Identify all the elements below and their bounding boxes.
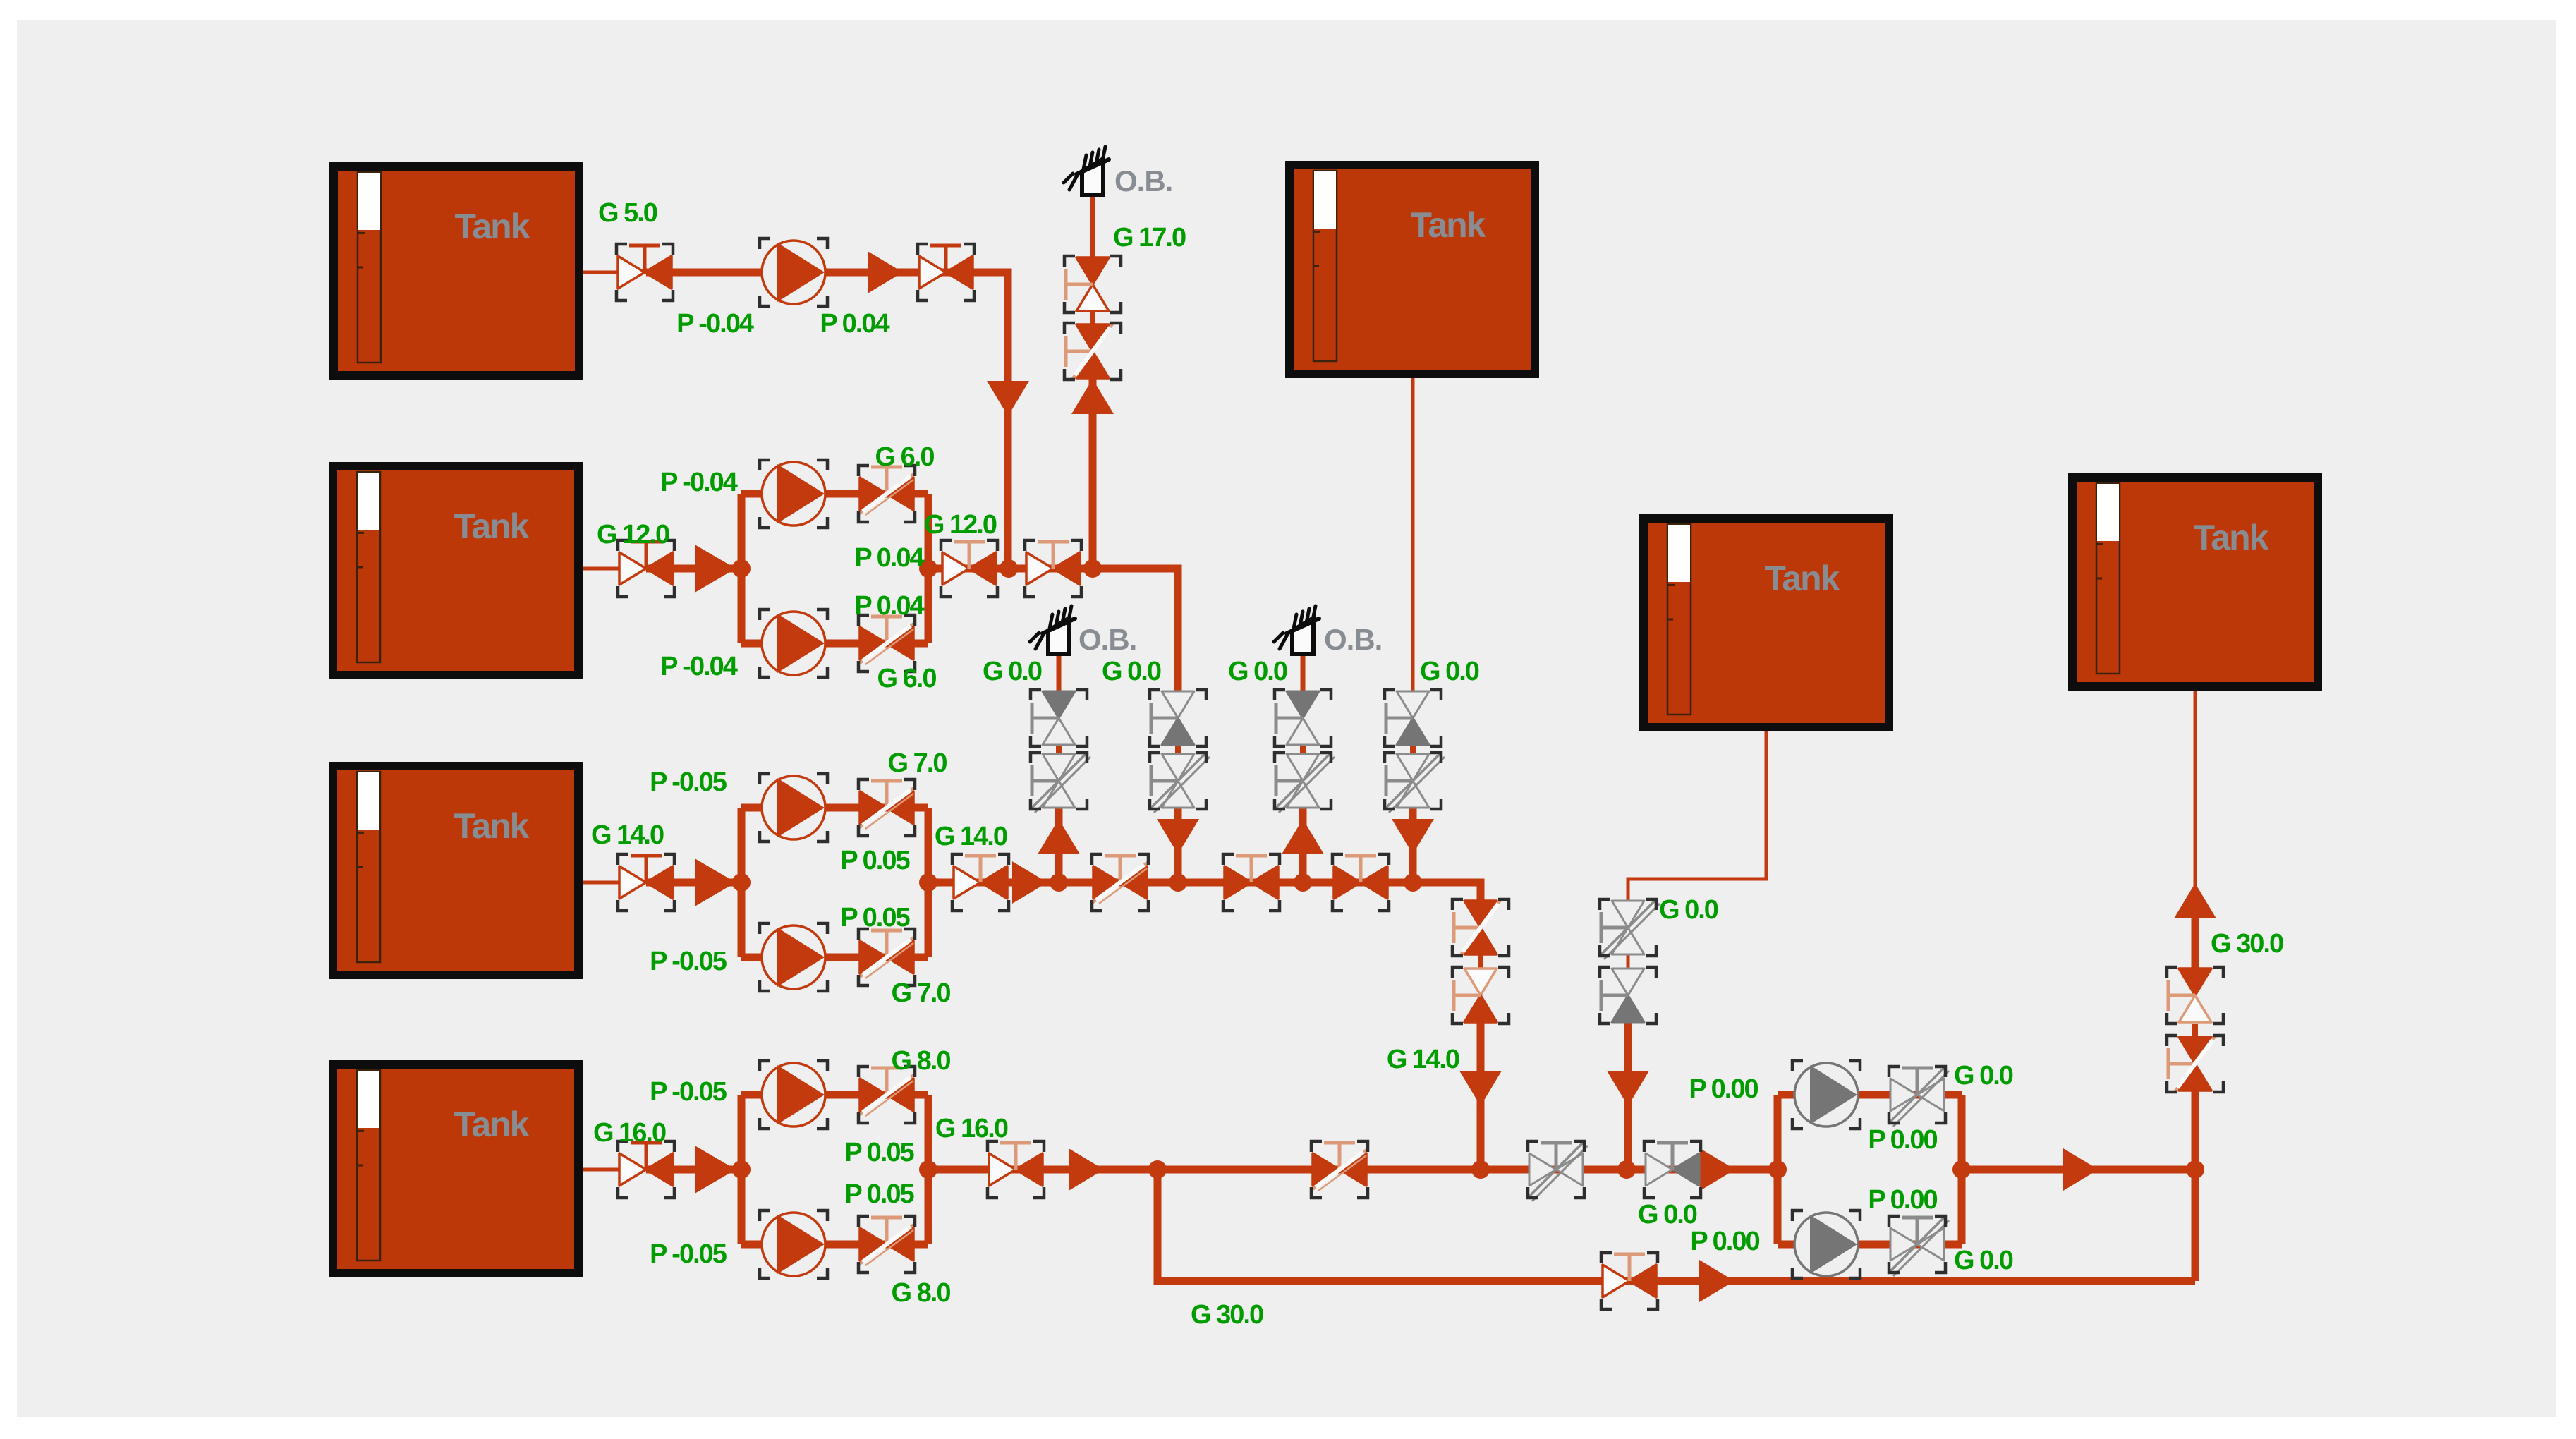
svg-text:O.B.: O.B. (1324, 623, 1382, 656)
svg-text:P 0.05: P 0.05 (844, 1138, 914, 1167)
svg-text:G 0.0: G 0.0 (1659, 895, 1718, 925)
svg-text:P 0.05: P 0.05 (840, 903, 910, 933)
svg-text:G 5.0: G 5.0 (598, 198, 657, 228)
svg-text:P -0.04: P -0.04 (676, 309, 754, 339)
svg-text:G 30.0: G 30.0 (2211, 929, 2283, 959)
svg-text:G 12.0: G 12.0 (924, 510, 997, 540)
svg-text:P 0.00: P 0.00 (1689, 1074, 1758, 1104)
svg-text:Tank: Tank (454, 1105, 530, 1144)
svg-text:P 0.00: P 0.00 (1868, 1125, 1937, 1155)
svg-text:P -0.05: P -0.05 (650, 767, 727, 797)
svg-text:Tank: Tank (454, 506, 530, 546)
svg-text:Tank: Tank (455, 207, 530, 246)
svg-text:Tank: Tank (1411, 205, 1486, 245)
svg-text:P 0.04: P 0.04 (820, 309, 889, 339)
svg-text:P 0.05: P 0.05 (844, 1179, 914, 1209)
svg-text:P 0.00: P 0.00 (1690, 1227, 1759, 1256)
svg-text:G 14.0: G 14.0 (1387, 1045, 1459, 1074)
svg-text:O.B.: O.B. (1079, 623, 1136, 656)
svg-text:G 30.0: G 30.0 (1191, 1300, 1263, 1330)
svg-text:G 0.0: G 0.0 (1228, 657, 1287, 686)
svg-text:G 6.0: G 6.0 (877, 664, 937, 693)
svg-text:G 16.0: G 16.0 (593, 1118, 666, 1148)
svg-text:G 16.0: G 16.0 (935, 1114, 1008, 1143)
svg-text:P -0.05: P -0.05 (650, 1239, 727, 1269)
svg-text:G 0.0: G 0.0 (1638, 1200, 1697, 1229)
svg-text:G 0.0: G 0.0 (1954, 1061, 2013, 1091)
svg-text:G 7.0: G 7.0 (892, 978, 951, 1008)
svg-text:G 7.0: G 7.0 (888, 748, 947, 778)
svg-text:P 0.04: P 0.04 (854, 591, 924, 621)
svg-text:P 0.05: P 0.05 (840, 846, 910, 875)
svg-text:G 17.0: G 17.0 (1113, 223, 1186, 253)
svg-text:P 0.04: P 0.04 (854, 543, 924, 573)
svg-text:G 8.0: G 8.0 (892, 1278, 951, 1308)
svg-text:G 8.0: G 8.0 (892, 1046, 951, 1076)
svg-text:P -0.04: P -0.04 (660, 468, 738, 497)
svg-text:G 12.0: G 12.0 (597, 520, 669, 550)
svg-text:P 0.00: P 0.00 (1868, 1185, 1937, 1215)
svg-text:G 0.0: G 0.0 (1420, 657, 1479, 686)
svg-text:G 6.0: G 6.0 (875, 442, 935, 472)
svg-text:Tank: Tank (454, 806, 530, 846)
svg-text:G 0.0: G 0.0 (1954, 1246, 2013, 1275)
svg-text:G 0.0: G 0.0 (1102, 657, 1161, 686)
svg-text:P -0.05: P -0.05 (650, 947, 727, 976)
svg-text:G 14.0: G 14.0 (935, 822, 1007, 851)
svg-text:P -0.04: P -0.04 (660, 652, 738, 681)
svg-text:Tank: Tank (2194, 518, 2269, 557)
svg-text:O.B.: O.B. (1114, 164, 1172, 198)
svg-text:P -0.05: P -0.05 (650, 1077, 727, 1107)
svg-text:G 0.0: G 0.0 (983, 657, 1042, 686)
svg-text:G 14.0: G 14.0 (591, 820, 664, 850)
svg-text:Tank: Tank (1765, 559, 1840, 598)
